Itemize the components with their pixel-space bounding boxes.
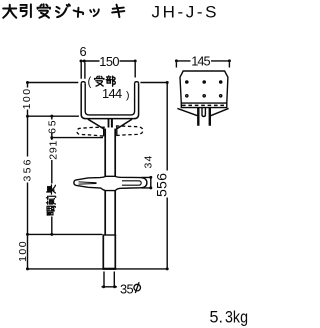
dim line B x51.8 [50, 115, 53, 236]
svg-text:): ) [126, 89, 130, 101]
pipe bottom cap [102, 268, 116, 270]
side gusset diagonals [177, 108, 228, 115]
wing left slot [79, 182, 97, 184]
ref line y234.4 pipe top [28, 233, 103, 235]
side bolts row1 [185, 80, 223, 84]
side legs [198, 108, 210, 126]
svg-text:144: 144 [102, 86, 122, 101]
svg-text:291: 291 [48, 140, 60, 160]
outer pipe [103, 235, 115, 268]
screw rod [105, 129, 115, 235]
right ref line y82.5 [140, 82, 167, 84]
ref line y116.2 [28, 115, 79, 117]
svg-text:34: 34 [143, 154, 155, 168]
svg-text:100: 100 [17, 240, 29, 262]
wing right slot [122, 181, 141, 185]
side view plate [180, 71, 228, 103]
svg-text:100: 100 [21, 87, 33, 109]
label 調節長 rotated [47, 206, 55, 215]
nut hub side edges [104, 126, 117, 136]
dim line 150 [80, 60, 137, 63]
dim 34 [142, 176, 153, 190]
svg-text:150: 150 [99, 54, 119, 69]
svg-text:65: 65 [46, 119, 58, 134]
pipe mouth [103, 234, 117, 236]
bracket wall top caps [81, 82, 138, 84]
left ref line y82.5 top of bracket [28, 82, 79, 84]
bottom ref line y268.9 [28, 268, 167, 270]
side screw tip [202, 108, 205, 117]
side base dashed edge [182, 104, 227, 106]
wing handle solid [74, 176, 147, 190]
bracket inner U [85, 84, 134, 115]
dim line 556 x167.2 [166, 81, 169, 270]
svg-text:5.: 5. [210, 309, 224, 327]
funnel neck below bracket [88, 119, 132, 129]
svg-text:35: 35 [120, 281, 134, 296]
side view dim 145 [175, 59, 231, 67]
svg-text:(: ( [88, 77, 92, 89]
svg-text:6: 6 [80, 44, 87, 59]
title kanji 大引受ジャッキ [3, 4, 124, 17]
ref line y139.5 nut bottom [52, 137, 103, 139]
side base strip [181, 103, 227, 108]
dashed wing nut upper position [77, 126, 143, 136]
svg-text:356: 356 [22, 157, 34, 181]
dim 35 phi [102, 272, 118, 289]
svg-text:556: 556 [154, 173, 170, 197]
screw tip bars at neck [108, 119, 110, 128]
dim line A x27.5 [26, 81, 29, 270]
svg-text:3kg: 3kg [225, 309, 248, 327]
extension lines from bracket wall top [81, 63, 135, 79]
svg-text:145: 145 [191, 53, 210, 68]
side bolts row2 [185, 94, 223, 98]
bracket 受部 outer U [81, 84, 138, 119]
